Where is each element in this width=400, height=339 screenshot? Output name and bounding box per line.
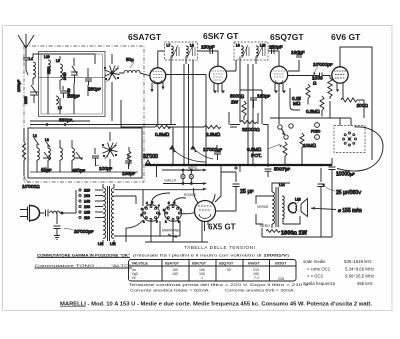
svg-text:2.5MΩ: 2.5MΩ xyxy=(206,132,221,138)
cap 100pF xyxy=(92,148,113,172)
svg-text:(misurate fra i piedini e il n: (misurate fra i piedini e il neutro con … xyxy=(133,253,290,257)
oscillator coil box xyxy=(28,128,142,178)
svg-text:0.5MΩ: 0.5MΩ xyxy=(306,109,320,114)
svg-text:6SK7GT: 6SK7GT xyxy=(192,262,207,266)
svg-text:MARRONE: MARRONE xyxy=(162,229,180,233)
svg-text:VERDE: VERDE xyxy=(257,205,269,209)
coil L5 xyxy=(56,59,67,80)
resistor 0.5M right xyxy=(306,96,324,117)
svg-text:5,34÷9,66 MHz: 5,34÷9,66 MHz xyxy=(345,267,374,272)
svg-text:6X5GT: 6X5GT xyxy=(275,262,287,266)
RF coil shield box xyxy=(39,52,106,117)
svg-text:180pF: 180pF xyxy=(291,50,305,56)
choke 50u xyxy=(124,57,140,73)
svg-text:FONO: FONO xyxy=(311,130,321,134)
svg-text:6V6 GT: 6V6 GT xyxy=(331,32,361,42)
svg-text:L2: L2 xyxy=(33,134,37,138)
svg-text:6V6GT: 6V6GT xyxy=(248,262,260,266)
fuse xyxy=(46,210,77,217)
tube V1 6SA7 xyxy=(150,68,166,125)
resistor 2.5M AVC xyxy=(204,125,221,138)
output transformer L14 xyxy=(272,183,290,228)
svg-text:140: 140 xyxy=(84,200,90,204)
oscillator coils row xyxy=(30,134,138,172)
mains plug xyxy=(20,205,45,223)
svg-text:220: 220 xyxy=(84,189,90,193)
note commutatore line xyxy=(37,253,290,257)
svg-text:L5: L5 xyxy=(56,59,60,63)
V1 plate wire to IFT1 xyxy=(158,51,206,75)
long horizontal wires xyxy=(30,90,268,127)
svg-text:25 μF/360V: 25 μF/360V xyxy=(336,190,361,196)
note commutatore tono xyxy=(35,264,133,268)
heater wires from transformer xyxy=(114,190,180,236)
svg-text:VALVOLE: VALVOLE xyxy=(132,262,149,266)
pilot lamps xyxy=(114,165,207,190)
svg-text:⌀ 155 m/m: ⌀ 155 m/m xyxy=(338,208,362,214)
cap 180pF bottom xyxy=(250,90,271,108)
trimmer 460pF xyxy=(72,152,86,174)
V2 plate wire to IFT2 xyxy=(218,51,236,71)
svg-text:630pF.: 630pF. xyxy=(59,118,73,124)
svg-text:2W: 2W xyxy=(231,100,239,106)
tube V3 6SQ7 xyxy=(270,66,287,93)
coil L6 xyxy=(56,96,62,110)
padder trimmer 1000 (vertical label) xyxy=(24,85,38,104)
svg-text:455 kHz: 455 kHz xyxy=(357,281,373,286)
svg-text:10MΩ: 10MΩ xyxy=(303,143,316,149)
svg-text:9,56÷16,5 MHz: 9,56÷16,5 MHz xyxy=(345,274,374,279)
resistor osc grid leak xyxy=(127,147,131,166)
svg-text:TABELLA DELLE TENSIONI: TABELLA DELLE TENSIONI xyxy=(184,245,256,250)
svg-text:MARELLI - Mod. 10 A 153 U - Me: MARELLI - Mod. 10 A 153 U - Medie e due … xyxy=(60,302,373,308)
svg-text:32'000: 32'000 xyxy=(143,154,158,160)
tube socket S2 xyxy=(163,201,182,224)
svg-text:1: 1 xyxy=(201,276,203,280)
label MARRONE xyxy=(162,229,180,238)
IFT1 to V2 grid, cap 150pF xyxy=(198,45,219,67)
svg-text:6SQ7GT: 6SQ7GT xyxy=(219,262,234,266)
antenna xyxy=(17,34,34,92)
svg-text:L3: L3 xyxy=(45,138,49,142)
NERO label on bus xyxy=(187,166,199,170)
voltage table xyxy=(129,260,297,282)
resistor 32000 with arrow xyxy=(240,120,260,133)
svg-text:» corte OC1: » corte OC1 xyxy=(307,267,331,272)
label VERDE xyxy=(256,196,272,209)
tuner shield box (dash-dot) xyxy=(24,46,144,182)
ground bus (thick) xyxy=(145,164,332,166)
coupling cap 10000pF to V4 grid xyxy=(288,62,333,79)
svg-text:130: 130 xyxy=(84,205,90,209)
power transformer L11 L12 xyxy=(98,184,116,246)
tube V4 6V6 xyxy=(332,67,348,92)
cap 630pF xyxy=(46,118,73,126)
svg-text:160: 160 xyxy=(84,194,90,198)
resistor 0.25M xyxy=(290,84,310,110)
wires around V4 cathode xyxy=(341,90,364,118)
cap 195pF xyxy=(122,155,136,177)
frequency range text block xyxy=(303,259,374,286)
label 6X5 GT xyxy=(205,222,236,232)
svg-text:L13: L13 xyxy=(295,198,301,202)
IF transformer 2 xyxy=(234,42,268,60)
cap 280pF xyxy=(85,74,101,92)
svg-text:L12: L12 xyxy=(110,242,116,246)
cap 10000pF AVC xyxy=(203,145,222,160)
fono jack xyxy=(311,123,321,140)
svg-text:228: 228 xyxy=(278,277,284,281)
switch contacts on bus xyxy=(170,146,213,162)
svg-text:0.5MΩ: 0.5MΩ xyxy=(155,132,170,138)
svg-text:Corrente anodica totale = 62mA: Corrente anodica totale = 62mA. xyxy=(130,289,210,293)
tube socket S1 xyxy=(141,201,161,224)
rectifier socket box xyxy=(270,118,365,153)
svg-text:110: 110 xyxy=(84,216,90,220)
svg-text:Ω: Ω xyxy=(313,81,316,86)
electrolytic 25uF/360V xyxy=(318,168,362,237)
voltage selector taps xyxy=(79,189,103,221)
tuning gang 2 xyxy=(102,143,117,160)
svg-text:5000'pF: 5000'pF xyxy=(274,167,291,172)
resistor 200 ohm cathode xyxy=(341,98,368,109)
wires IFT2 down xyxy=(240,57,256,149)
svg-text:280pF: 280pF xyxy=(88,87,101,92)
svg-text:125: 125 xyxy=(84,211,90,215)
svg-text:L7: L7 xyxy=(167,44,171,48)
svg-text:535÷1625 kHz: 535÷1625 kHz xyxy=(344,259,372,264)
IF transformer 1 xyxy=(165,42,198,60)
svg-text:6SA7GT: 6SA7GT xyxy=(128,32,162,42)
mains wire to selector xyxy=(57,190,76,224)
svg-text:0.5MΩ: 0.5MΩ xyxy=(247,147,262,153)
wire plate curve to tone cap xyxy=(337,127,383,171)
svg-text:Commutatore TONO . . .: Commutatore TONO . . . . "ALTO" xyxy=(35,264,133,268)
svg-text:L4: L4 xyxy=(29,57,33,61)
cap 20000pF line filter xyxy=(54,226,94,240)
label NERO + wire xyxy=(256,214,270,228)
wires sockets to 6X5 xyxy=(126,193,208,242)
cap 5000pF xyxy=(265,165,291,177)
svg-text:Tensione continua prima del fi: Tensione continua prima del filtro = 220… xyxy=(129,283,310,287)
svg-text:92: 92 xyxy=(227,268,231,272)
label GIALLO xyxy=(164,179,177,183)
svg-text:Vk: Vk xyxy=(132,276,136,280)
wires inside tuner box xyxy=(33,54,95,114)
cap 180pF on V3 plate xyxy=(288,50,305,71)
cap 125pF xyxy=(60,86,80,99)
svg-text:100: 100 xyxy=(172,272,178,276)
svg-text:COMMUTATORE GAMMA IN POSIZIONE: COMMUTATORE GAMMA IN POSIZIONE "OK" xyxy=(37,253,130,257)
svg-text:onde medie: onde medie xyxy=(303,259,326,264)
V4 plate loop wire xyxy=(340,47,372,160)
gang stub wires xyxy=(110,54,112,172)
cap 10000pF tone xyxy=(329,158,356,237)
IFT2 to V3 grid, cap 250pF xyxy=(268,45,283,67)
long vertical wires center xyxy=(173,64,279,165)
resistor 8000 ohm 2W xyxy=(229,90,246,120)
svg-text:6X5 GT: 6X5 GT xyxy=(208,223,236,232)
svg-text:6SQ7GT: 6SQ7GT xyxy=(270,32,304,42)
resistor 1000 ohm grid xyxy=(312,76,332,119)
trimmer 93pF xyxy=(41,152,52,174)
tube V2 6SK7 xyxy=(209,66,226,93)
cap 25uF cathode xyxy=(233,166,254,196)
svg-text:3÷50: 3÷50 xyxy=(63,72,67,80)
resistor 10000 antenna xyxy=(22,128,40,190)
svg-text:7.2: 7.2 xyxy=(254,276,259,280)
wire gang to choke to V1 xyxy=(119,73,150,76)
svg-text:» » OC2: » » OC2 xyxy=(307,274,324,279)
svg-text:Corrente anodica 6V6 = 30mA.: Corrente anodica 6V6 = 30mA. xyxy=(225,289,295,293)
svg-text:GIALLO: GIALLO xyxy=(164,179,177,183)
svg-text:6SK7 GT: 6SK7 GT xyxy=(203,31,239,41)
bus junction dots xyxy=(170,164,322,167)
6X5 top left wire xyxy=(194,188,216,204)
svg-text:6SA7GT: 6SA7GT xyxy=(165,262,180,266)
resistor 0.5M AVC xyxy=(155,125,171,138)
antenna coil L4 xyxy=(29,57,35,78)
wire 6X5 to filter xyxy=(215,172,236,211)
tube V5 6X5 xyxy=(195,201,216,227)
bottom right wires xyxy=(221,165,332,237)
svg-text:NERO: NERO xyxy=(260,224,270,228)
speaker size arrow 155 m/m xyxy=(311,207,362,214)
resistor 1000 ohm 1W field xyxy=(266,230,308,237)
svg-text:L9: L9 xyxy=(236,44,240,48)
volume pot switch contacts xyxy=(278,124,293,139)
svg-text:media frequenza: media frequenza xyxy=(303,281,336,286)
resistor 10M xyxy=(300,133,316,164)
speaker L13 xyxy=(288,198,307,217)
trimmer 3-50 xyxy=(67,66,78,96)
svg-text:L14: L14 xyxy=(279,183,285,187)
label 32000 with triangle xyxy=(143,154,158,163)
wires IFT1 down xyxy=(171,57,193,166)
svg-text:1000pF: 1000pF xyxy=(17,79,21,92)
svg-text:MΩ: MΩ xyxy=(293,101,301,106)
coil L10 xyxy=(44,55,51,74)
svg-text:1000: 1000 xyxy=(24,96,28,104)
label ROSSO xyxy=(184,193,197,197)
pot 0.5M POT resistor xyxy=(247,142,287,165)
svg-text:L10: L10 xyxy=(44,55,50,59)
tuning gang 1 (variable capacitor) xyxy=(104,66,119,83)
